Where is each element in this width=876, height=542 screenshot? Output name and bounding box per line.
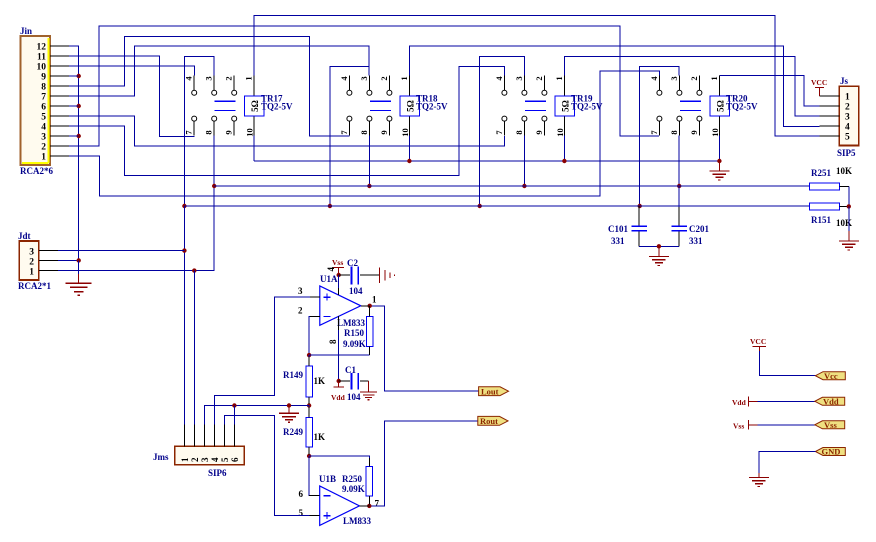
capacitor C2 104 <box>339 258 380 296</box>
capacitor C201 331 <box>672 186 710 246</box>
bus186 to R251 <box>214 185 809 187</box>
svg-text:R251: R251 <box>811 168 831 178</box>
wire Jdt pin2 <box>58 259 78 261</box>
node bus186 left <box>212 184 216 188</box>
svg-text:VCC: VCC <box>750 337 766 346</box>
svg-text:1K: 1K <box>314 432 326 442</box>
wire TR17 bridge to Jms pin1 <box>183 206 185 425</box>
svg-text:10: 10 <box>37 63 47 73</box>
svg-text:Vss: Vss <box>824 420 837 430</box>
svg-text:1: 1 <box>180 457 190 462</box>
connector Jms SIP6 <box>153 425 244 479</box>
wire U1B pin5 from Jms pin5 <box>225 415 320 515</box>
svg-text:104: 104 <box>349 286 363 296</box>
svg-text:Vss: Vss <box>332 258 343 267</box>
relay TR20 TQ2-5V <box>649 76 758 137</box>
wire TR17 pin8 down <box>58 136 214 271</box>
svg-text:1K: 1K <box>314 376 326 386</box>
svg-text:4: 4 <box>845 123 850 133</box>
svg-text:5: 5 <box>845 133 850 143</box>
svg-text:R149: R149 <box>283 370 303 380</box>
black component pin stubs <box>309 288 370 516</box>
power VCC flag section <box>750 337 815 376</box>
wire U1A pin3 input from Jms pin4 <box>215 297 320 424</box>
node Jdt pin1 to Jms pin2 <box>192 268 196 272</box>
svg-text:TQ2-5V: TQ2-5V <box>416 102 448 112</box>
wire U1A pin2 input <box>309 316 320 355</box>
svg-text:RCA2*6: RCA2*6 <box>20 166 53 176</box>
wire TR19 pin8 to bus186 <box>523 136 525 187</box>
node U1B feedback <box>307 454 311 458</box>
resistor R249 1K <box>283 406 325 457</box>
svg-text:104: 104 <box>347 392 361 402</box>
node bus206 left <box>182 204 186 208</box>
svg-text:R249: R249 <box>283 427 303 437</box>
node R149 bottom <box>307 403 311 407</box>
svg-text:TQ2-5V: TQ2-5V <box>726 102 758 112</box>
wire U1B output pin7 to Rout <box>359 421 477 506</box>
resistor R151 10K <box>809 203 852 228</box>
ground Jdt <box>78 260 80 274</box>
wire TR19 pin1 to row56 to Js pin3 <box>564 57 819 117</box>
wire U1B pin6 <box>309 456 320 496</box>
svg-text:SIP6: SIP6 <box>208 468 227 478</box>
resistor R251 10K <box>809 166 852 206</box>
svg-text:TQ2-5V: TQ2-5V <box>571 102 603 112</box>
svg-text:2: 2 <box>190 457 200 462</box>
svg-text:SIP5: SIP5 <box>837 148 856 158</box>
wire TR18 pin10 <box>408 136 410 162</box>
node pin3 <box>77 134 81 138</box>
svg-text:8: 8 <box>328 339 338 344</box>
wire U1A output pin1 to Lout <box>361 306 479 391</box>
power Vdd U1A <box>331 381 346 402</box>
svg-text:R250: R250 <box>342 474 362 484</box>
power Vss pin <box>733 420 815 431</box>
node Jdt pin3 junction <box>182 248 186 252</box>
capacitor C1 104 <box>339 365 369 402</box>
ground C2 (bar style) <box>380 268 395 284</box>
wire Jin ground bus vertical <box>69 46 79 260</box>
op-amp U1A LM833 <box>298 274 377 344</box>
svg-text:4: 4 <box>41 123 46 133</box>
ground GND flag <box>758 473 760 478</box>
relay TR19 TQ2-5V <box>494 76 603 137</box>
wire TR19 pin10 <box>563 136 565 162</box>
svg-text:GND: GND <box>822 447 841 457</box>
svg-text:3: 3 <box>41 133 46 143</box>
node pin6 <box>77 104 81 108</box>
svg-text:1: 1 <box>29 268 34 278</box>
svg-text:C201: C201 <box>689 224 709 234</box>
svg-text:LM833: LM833 <box>343 516 371 526</box>
flag GND <box>759 447 845 473</box>
svg-text:1: 1 <box>372 295 377 305</box>
svg-text:3: 3 <box>298 286 303 296</box>
op-amp U1B LM833 <box>299 474 380 526</box>
wire TR20 bridge pin3 <box>640 67 680 207</box>
svg-text:4: 4 <box>210 457 220 462</box>
svg-text:Vcc: Vcc <box>824 371 838 381</box>
node U1A feedback <box>307 353 311 357</box>
svg-text:VCC: VCC <box>811 78 827 87</box>
svg-text:9: 9 <box>41 73 46 83</box>
wire Jin pin11 to TR17 pin7 <box>69 56 194 136</box>
connector Jin (RCA2*6) <box>20 26 69 176</box>
wire TR19 bridge pin3 <box>480 57 525 206</box>
wire TR20 pin8 to bus186 and C201 <box>678 136 680 187</box>
svg-text:2: 2 <box>41 143 46 153</box>
wire TR20 pin1 to row76 to Js pin2 <box>719 76 819 107</box>
flag Vdd <box>815 396 845 406</box>
svg-text:Jdt: Jdt <box>18 231 31 241</box>
relay TR18 TQ2-5V <box>339 76 448 137</box>
svg-text:10K: 10K <box>836 166 852 176</box>
ground coil bus <box>718 161 720 171</box>
resistor R149 1K <box>283 355 325 405</box>
relay TR17 TQ2-5V <box>184 76 293 137</box>
node pin9 <box>77 74 81 78</box>
svg-text:331: 331 <box>689 236 703 246</box>
power Vss U1A <box>326 258 344 295</box>
svg-text:C1: C1 <box>345 365 356 375</box>
svg-text:12: 12 <box>37 43 47 53</box>
wire Jin pin5 to bus146 to TR19 pin7 <box>69 116 504 146</box>
wire TR17 pin1 to bus15 to Js pin5 <box>254 15 819 136</box>
svg-text:7: 7 <box>41 93 46 103</box>
svg-text:5: 5 <box>41 113 46 123</box>
svg-text:C101: C101 <box>608 224 628 234</box>
svg-text:5: 5 <box>299 508 304 518</box>
svg-text:R151: R151 <box>811 215 831 225</box>
resistor R250 9.09K <box>342 466 373 506</box>
capacitor C101 331 <box>608 206 647 246</box>
svg-text:7: 7 <box>375 499 380 509</box>
svg-text:5: 5 <box>220 457 230 462</box>
wire TR20 pin10 <box>718 136 720 162</box>
svg-text:6: 6 <box>230 457 240 462</box>
svg-text:Lout: Lout <box>481 386 499 396</box>
svg-text:Vss: Vss <box>733 422 744 431</box>
node mid ground <box>287 403 291 407</box>
svg-text:2: 2 <box>298 306 303 316</box>
svg-text:9.09K: 9.09K <box>342 484 365 494</box>
bus206 to R151 <box>184 205 809 207</box>
power VCC at Js <box>811 78 827 96</box>
flag Vcc <box>815 371 845 381</box>
resistor R150 9.09K <box>343 306 373 355</box>
wire TR17 bridge pin3 <box>184 57 214 207</box>
svg-text:LM833: LM833 <box>337 318 365 328</box>
ground caps <box>658 246 660 256</box>
connector Js SIP5 <box>820 76 859 158</box>
wire Jin pin1 to bus196 to TR20 pin4 <box>69 71 659 196</box>
svg-text:8: 8 <box>41 83 46 93</box>
ground C1 <box>368 381 370 392</box>
svg-text:Rout: Rout <box>480 416 498 426</box>
svg-text:TQ2-5V: TQ2-5V <box>261 102 293 112</box>
wire Jdt pin3 <box>58 250 184 252</box>
svg-text:3: 3 <box>29 248 34 258</box>
svg-text:Vdd: Vdd <box>732 398 747 407</box>
svg-text:9.09K: 9.09K <box>343 339 366 349</box>
svg-text:U1A: U1A <box>320 274 338 284</box>
svg-text:RCA2*1: RCA2*1 <box>18 281 51 291</box>
svg-text:Vdd: Vdd <box>823 396 839 406</box>
wire mid node to Jms pin3 <box>204 406 309 425</box>
wire Jin pin2 to bus26 to TR20 pin7 <box>69 26 659 146</box>
wire Jin pin8 to bus36 to TR18 pin7 <box>69 36 350 135</box>
svg-text:6: 6 <box>41 103 46 113</box>
svg-text:10K: 10K <box>836 218 852 228</box>
wire coil return bus161 to ground <box>254 160 719 162</box>
wire Jin pin7 to bus46 to TR18 pin3 <box>69 46 369 96</box>
svg-text:2: 2 <box>29 258 34 268</box>
svg-text:Js: Js <box>840 76 849 86</box>
svg-text:Jin: Jin <box>20 26 32 36</box>
svg-text:331: 331 <box>611 236 625 246</box>
wire Jin pin10 to TR17 pin4 <box>69 66 194 76</box>
svg-text:2: 2 <box>845 103 850 113</box>
svg-text:U1B: U1B <box>319 474 336 484</box>
power Vdd pin <box>732 397 815 408</box>
svg-text:R150: R150 <box>344 328 364 338</box>
svg-text:11: 11 <box>37 53 46 63</box>
connector Jdt RCA2*1 <box>18 231 58 291</box>
wire TR17 pin10 to coil bus <box>253 136 255 162</box>
wire TR18 pin8 to bus186 <box>368 136 370 187</box>
wire Jin pin4 to bus176 to TR19 pin4 <box>69 66 505 175</box>
node Jms pin6 tap <box>232 403 236 407</box>
svg-text:3: 3 <box>845 113 850 123</box>
ground R divider <box>848 206 850 231</box>
wire caps to ground <box>639 245 679 247</box>
svg-text:3: 3 <box>200 457 210 462</box>
svg-text:Jms: Jms <box>153 452 169 462</box>
svg-text:6: 6 <box>299 489 304 499</box>
svg-text:1: 1 <box>41 153 46 163</box>
flag Lout <box>479 386 509 396</box>
svg-text:1: 1 <box>845 93 850 103</box>
flag Vss <box>815 420 845 430</box>
svg-text:Vdd: Vdd <box>331 393 346 402</box>
flag Rout <box>478 416 508 426</box>
wire U1A pin8 down <box>338 316 340 381</box>
wire TR18 pin1 to bus46 to Js pin4 <box>409 46 819 126</box>
svg-text:C2: C2 <box>347 258 358 268</box>
svg-text:4: 4 <box>326 267 336 272</box>
wire TR18 bridge pin3 <box>330 66 369 206</box>
